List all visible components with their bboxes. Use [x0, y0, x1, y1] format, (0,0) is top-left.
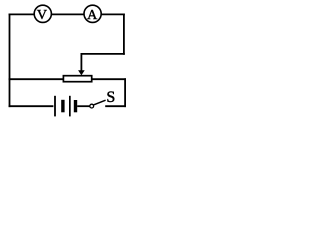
- battery GB cell2 long plate: [69, 96, 71, 117]
- voltmeter V circle: [34, 5, 51, 22]
- svg-text:A: A: [87, 8, 98, 23]
- svg-text:S: S: [106, 89, 115, 106]
- battery GB cell2 short plate: [74, 100, 77, 112]
- wire top (left corner to right corner): [9, 13, 125, 15]
- wire switch contact to right corner: [105, 105, 126, 107]
- switch S blade: [94, 100, 106, 105]
- rheostat slider arrow stem: [80, 54, 82, 72]
- wire left vertical: [9, 14, 11, 108]
- wire rheostat row horizontal: [9, 78, 126, 80]
- battery GB cell1 long plate: [54, 96, 56, 117]
- wire right vertical lower: [124, 78, 126, 107]
- wire bottom (left corner to battery): [9, 105, 54, 107]
- svg-text:V: V: [37, 8, 47, 23]
- ammeter A circle: [84, 5, 101, 22]
- wire battery to switch: [77, 105, 90, 107]
- resistor R slide rheostat body: [63, 76, 91, 82]
- wire right vertical upper: [123, 14, 125, 55]
- rheostat slider arrowhead: [78, 70, 85, 75]
- wire slider bracket horizontal: [81, 53, 125, 55]
- switch S pivot: [90, 104, 94, 108]
- battery GB cell1 short plate: [61, 100, 64, 113]
